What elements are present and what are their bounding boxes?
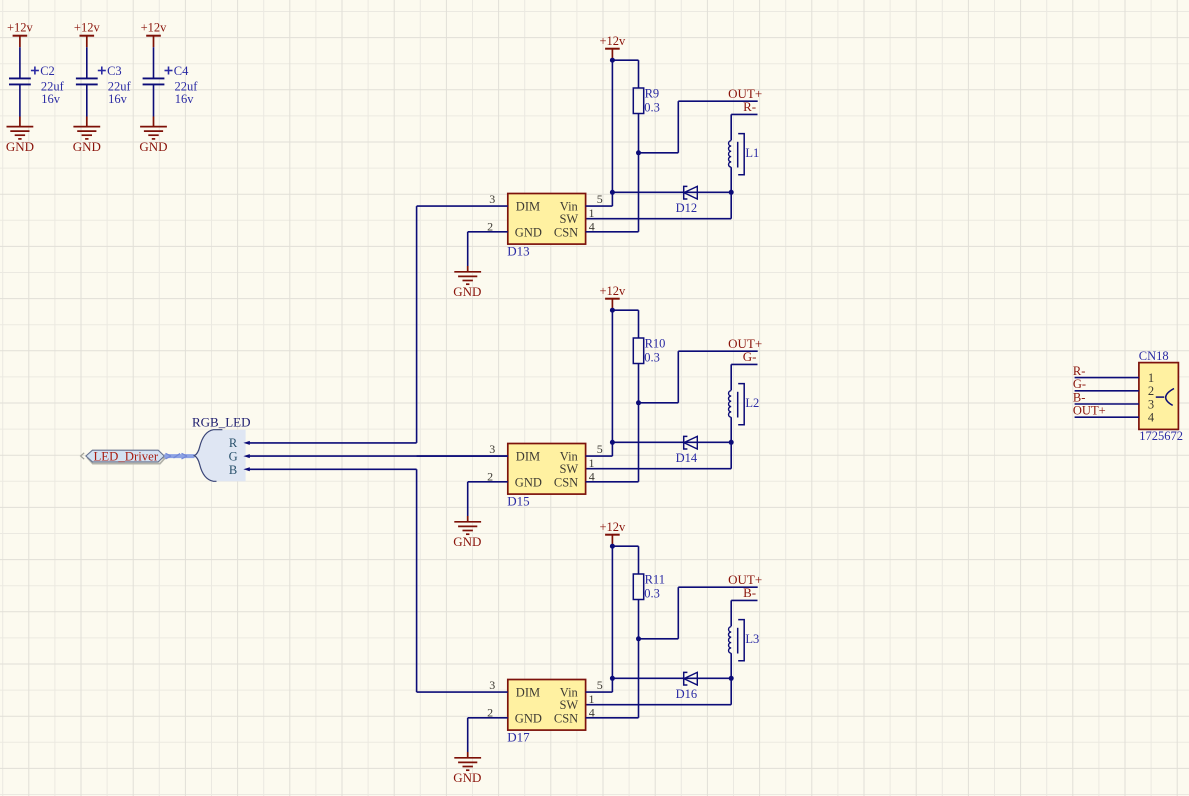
pin 4 CSN wire: [586, 481, 639, 483]
svg-text:RGB_LED: RGB_LED: [192, 415, 251, 430]
svg-text:3: 3: [489, 678, 495, 692]
harness connector marker: [81, 453, 85, 459]
CN18 pin 2 wire: [1075, 390, 1139, 392]
svg-text:R11: R11: [645, 573, 665, 587]
svg-text:GND: GND: [139, 139, 167, 154]
pin 4 CSN wire: [586, 231, 639, 233]
wire junction to OUT+ riser: [639, 152, 679, 154]
power +12v (block D17): [599, 520, 626, 546]
svg-text:B: B: [229, 463, 237, 477]
svg-text:1725672: 1725672: [1139, 429, 1183, 443]
svg-text:+12v: +12v: [599, 520, 626, 534]
wire +12v to C2: [19, 47, 21, 77]
svg-text:0.3: 0.3: [644, 351, 660, 365]
wire resistor bottom to CSN: [638, 364, 640, 482]
ground GND (D13): [453, 266, 481, 299]
wire R- to inductor: [730, 114, 732, 140]
wire to resistor top: [612, 545, 638, 547]
svg-text:C2: C2: [40, 64, 55, 78]
wire net R arrow: [243, 441, 249, 445]
wire to resistor top: [612, 309, 638, 311]
wire diode row: [612, 191, 731, 193]
junction: [610, 544, 615, 549]
wire net R-: [731, 113, 757, 115]
wire +12v rail: [611, 60, 613, 206]
svg-text:D12: D12: [676, 201, 698, 215]
pin 2 GND wire: [468, 481, 508, 483]
wire junction to OUT+ riser: [639, 638, 679, 640]
svg-text:0.3: 0.3: [644, 587, 660, 601]
svg-text:R: R: [229, 436, 238, 450]
svg-text:5: 5: [597, 442, 603, 456]
diode D16: [676, 672, 698, 701]
svg-text:+12v: +12v: [74, 21, 101, 35]
svg-text:3: 3: [489, 192, 495, 206]
wire net G-: [731, 363, 757, 365]
svg-text:1: 1: [589, 206, 595, 220]
wire resistor bottom to CSN: [638, 600, 640, 718]
connector CN18: [1139, 349, 1183, 443]
svg-text:C4: C4: [174, 64, 189, 78]
svg-text:B-: B-: [743, 585, 756, 600]
svg-text:1: 1: [589, 456, 595, 470]
power +12v (C3): [74, 21, 101, 48]
svg-text:LED_Driver: LED_Driver: [93, 449, 158, 463]
svg-text:+12v: +12v: [599, 34, 626, 48]
power +12v (C2): [7, 21, 34, 48]
wire net G arrow: [243, 454, 249, 458]
svg-text:SW: SW: [559, 462, 578, 476]
svg-text:+12v: +12v: [599, 284, 626, 298]
pin 3 DIM wire: [417, 691, 508, 693]
IC D15 body: [507, 444, 585, 509]
svg-text:R9: R9: [645, 87, 660, 101]
svg-text:4: 4: [589, 219, 595, 233]
svg-text:2: 2: [1148, 384, 1154, 398]
svg-text:GND: GND: [453, 534, 481, 549]
signal harness LED_Driver to RGB_LED: [164, 453, 194, 459]
wire net B: [249, 468, 417, 470]
svg-text:R-: R-: [1073, 364, 1086, 378]
wire inductor to diode junction: [730, 167, 732, 192]
wire inductor to diode junction: [730, 653, 732, 678]
svg-text:GND: GND: [515, 225, 542, 239]
port LED_Driver: [86, 449, 165, 463]
pin 4 CSN wire: [586, 717, 639, 719]
svg-text:R-: R-: [743, 99, 756, 114]
svg-text:4: 4: [589, 469, 595, 483]
svg-text:5: 5: [597, 192, 603, 206]
svg-text:GND: GND: [453, 770, 481, 785]
wire SW to diode junction: [586, 704, 732, 706]
svg-text:5: 5: [597, 678, 603, 692]
wire +12v rail: [611, 546, 613, 692]
wire B- to inductor: [730, 600, 732, 626]
junction: [610, 440, 615, 445]
svg-text:L3: L3: [745, 632, 759, 646]
junction: [610, 58, 615, 63]
harness connector RGB_LED: [192, 415, 251, 482]
svg-text:B-: B-: [1073, 390, 1086, 404]
power +12v (block D15): [599, 284, 626, 310]
diode D12: [676, 186, 698, 215]
wire GND drop (D15): [467, 482, 469, 516]
svg-text:GND: GND: [515, 475, 542, 489]
wire GND drop (D13): [467, 232, 469, 266]
svg-text:CSN: CSN: [554, 225, 578, 239]
CN18 pin 1 wire: [1075, 377, 1139, 379]
ground GND (D15): [453, 516, 481, 549]
inductor L2: [729, 384, 760, 425]
svg-text:3: 3: [489, 442, 495, 456]
svg-text:+12v: +12v: [141, 21, 168, 35]
wire to resistor top: [612, 59, 638, 61]
pin 5 Vin wire: [586, 205, 613, 207]
ground GND (D17): [453, 752, 481, 785]
wire net R: [249, 442, 417, 444]
resistor R11 0.3: [633, 573, 665, 601]
svg-text:+12v: +12v: [7, 21, 34, 35]
junction: [610, 308, 615, 313]
wire C2 to GND: [19, 84, 21, 116]
ground GND (C2): [6, 117, 34, 155]
svg-text:GND: GND: [73, 139, 101, 154]
pin 2 GND wire: [468, 717, 508, 719]
inductor L1: [729, 134, 760, 175]
svg-text:L1: L1: [745, 146, 759, 160]
svg-text:D14: D14: [676, 451, 698, 465]
svg-text:4: 4: [1148, 411, 1155, 425]
wire inductor to diode junction: [730, 417, 732, 442]
wire resistor bottom to CSN: [638, 114, 640, 232]
resistor R9 0.3: [633, 87, 660, 115]
wire net B arrow: [243, 467, 249, 471]
wire C3 to GND: [86, 84, 88, 116]
svg-text:DIM: DIM: [516, 199, 540, 213]
junction: [610, 190, 615, 195]
inductor L3: [729, 620, 760, 661]
svg-text:CSN: CSN: [554, 711, 578, 725]
pin 2 GND wire: [468, 231, 508, 233]
svg-text:L2: L2: [745, 396, 759, 410]
svg-text:OUT+: OUT+: [1073, 404, 1106, 418]
wire SW to diode junction: [586, 218, 732, 220]
svg-text:D13: D13: [507, 243, 529, 258]
svg-text:G: G: [229, 450, 238, 464]
svg-text:16v: 16v: [41, 92, 61, 106]
pin 3 DIM wire: [417, 455, 508, 457]
wire +12v to C3: [86, 47, 88, 77]
svg-text:2: 2: [487, 469, 493, 483]
wire +12v rail: [611, 310, 613, 456]
wire G- to inductor: [730, 364, 732, 390]
svg-text:DIM: DIM: [516, 449, 540, 463]
svg-text:4: 4: [589, 705, 595, 719]
svg-text:D17: D17: [507, 729, 530, 744]
svg-text:GND: GND: [515, 711, 542, 725]
junction: [636, 150, 641, 155]
svg-text:3: 3: [1148, 397, 1154, 411]
wire diode row: [612, 441, 731, 443]
svg-text:C3: C3: [107, 64, 122, 78]
svg-text:0.3: 0.3: [644, 101, 660, 115]
svg-text:SW: SW: [559, 698, 578, 712]
svg-text:1: 1: [1148, 371, 1154, 385]
wire SW to diode junction: [586, 468, 732, 470]
svg-text:SW: SW: [559, 212, 578, 226]
junction: [729, 190, 734, 195]
ground GND (C3): [73, 117, 101, 155]
svg-text:CN18: CN18: [1139, 349, 1169, 363]
svg-text:R10: R10: [645, 337, 666, 351]
wire C4 to GND: [153, 84, 155, 116]
wire junction to OUT+ riser: [639, 402, 679, 404]
junction: [729, 676, 734, 681]
junction: [636, 400, 641, 405]
svg-text:GND: GND: [6, 139, 34, 154]
svg-text:GND: GND: [453, 284, 481, 299]
IC D17 body: [507, 680, 585, 745]
svg-text:G-: G-: [1073, 377, 1086, 391]
CN18 pin 4 wire: [1075, 416, 1139, 418]
ground GND (C4): [139, 117, 167, 155]
wire net OUT+: [678, 350, 757, 352]
pin 5 Vin wire: [586, 691, 613, 693]
svg-text:G-: G-: [743, 349, 757, 364]
wire net OUT+: [678, 586, 757, 588]
resistor R10 0.3: [633, 337, 665, 365]
IC D13 body: [507, 194, 585, 259]
power +12v (block D13): [599, 34, 626, 60]
svg-text:D15: D15: [507, 493, 529, 508]
CN18 pin 3 wire: [1075, 403, 1139, 405]
diode D14: [676, 436, 698, 465]
junction: [610, 676, 615, 681]
capacitor C2 22uf 16v: [9, 64, 65, 106]
svg-text:16v: 16v: [108, 92, 128, 106]
wire net B-: [731, 599, 757, 601]
wire +12v to C4: [153, 47, 155, 77]
wire net OUT+: [678, 100, 757, 102]
svg-text:2: 2: [487, 219, 493, 233]
capacitor C3 22uf 16v: [76, 64, 132, 106]
junction: [636, 636, 641, 641]
pin 3 DIM wire: [417, 205, 508, 207]
svg-text:1: 1: [589, 692, 595, 706]
capacitor C4 22uf 16v: [143, 64, 199, 106]
junction: [729, 440, 734, 445]
svg-text:2: 2: [487, 705, 493, 719]
svg-text:16v: 16v: [175, 92, 195, 106]
power +12v (C4): [141, 21, 168, 48]
pin 5 Vin wire: [586, 455, 613, 457]
svg-text:CSN: CSN: [554, 475, 578, 489]
svg-text:D16: D16: [676, 687, 698, 701]
wire GND drop (D17): [467, 718, 469, 752]
wire diode row: [612, 677, 731, 679]
wire net G: [249, 455, 508, 457]
svg-text:DIM: DIM: [516, 685, 540, 699]
